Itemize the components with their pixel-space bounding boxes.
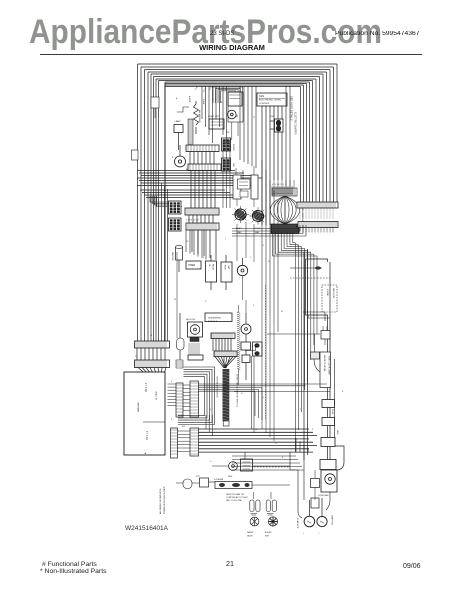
svg-text:DISPENSER: DISPENSER bbox=[208, 318, 221, 320]
svg-text:ELECTRONIC CNTRL: ELECTRONIC CNTRL bbox=[259, 100, 282, 102]
svg-text:ICE: ICE bbox=[270, 116, 274, 118]
svg-text:START RLY: START RLY bbox=[331, 515, 334, 526]
svg-text:H: H bbox=[262, 397, 264, 399]
svg-text:L1: L1 bbox=[262, 245, 265, 247]
svg-text:TWISTED PR SEE NOTE: TWISTED PR SEE NOTE bbox=[216, 376, 218, 398]
svg-text:CONTROL: CONTROL bbox=[259, 103, 270, 105]
svg-text:J2 CONN: J2 CONN bbox=[156, 391, 158, 400]
svg-text:LT: LT bbox=[253, 117, 256, 119]
svg-text:S-THERM: S-THERM bbox=[214, 479, 223, 481]
svg-text:SENSOR: SENSOR bbox=[171, 252, 173, 261]
svg-text:ALL WIRING SHOWN WITH: ALL WIRING SHOWN WITH bbox=[159, 488, 162, 514]
svg-text:1 2 3 4 5 6 7 8: 1 2 3 4 5 6 7 8 bbox=[186, 220, 200, 222]
svg-text:MAIN BRD: MAIN BRD bbox=[137, 402, 140, 412]
svg-text:DO NOT SPLICE WIRES AT THIS LO: DO NOT SPLICE WIRES AT THIS LOC bbox=[236, 374, 239, 408]
svg-text:L: L bbox=[172, 156, 174, 159]
svg-text:CAP: CAP bbox=[227, 265, 230, 270]
svg-text:VALVE: VALVE bbox=[247, 535, 253, 538]
svg-text:PTC: PTC bbox=[196, 476, 201, 478]
svg-text:D: D bbox=[210, 461, 212, 463]
svg-text:COMP MTR: COMP MTR bbox=[296, 518, 298, 529]
svg-text:K: K bbox=[253, 305, 255, 307]
svg-text:DOOR: DOOR bbox=[232, 144, 234, 151]
svg-text:RUN: RUN bbox=[224, 265, 226, 270]
svg-text:LINE: LINE bbox=[336, 430, 338, 435]
svg-text:4 WIRE: 4 WIRE bbox=[326, 289, 328, 297]
svg-text:DEF: DEF bbox=[228, 476, 233, 478]
svg-text:DEF. CYCLE TIME: DEF. CYCLE TIME bbox=[226, 500, 243, 502]
svg-text:A: A bbox=[176, 97, 178, 100]
svg-text:ELECTRIC DAMPER: ELECTRIC DAMPER bbox=[294, 112, 297, 135]
svg-text:M: M bbox=[281, 311, 283, 313]
svg-text:LIGHT SW: LIGHT SW bbox=[208, 116, 219, 118]
svg-text:J2: J2 bbox=[135, 356, 138, 358]
svg-text:#: # bbox=[303, 533, 305, 535]
svg-text:SW: SW bbox=[226, 132, 229, 134]
svg-text:AUGER: AUGER bbox=[265, 531, 272, 534]
svg-text:L2: L2 bbox=[275, 443, 278, 445]
svg-text:P3: P3 bbox=[186, 241, 189, 243]
svg-text:COMP RELAY CYCLE AT: COMP RELAY CYCLE AT bbox=[226, 496, 249, 499]
svg-text:9: 9 bbox=[171, 419, 173, 421]
svg-text:A-05: A-05 bbox=[194, 85, 199, 91]
svg-text:C: C bbox=[250, 257, 252, 259]
svg-text:1: 1 bbox=[171, 381, 173, 383]
svg-text:FUSE: FUSE bbox=[331, 409, 333, 415]
svg-text:MODULE: MODULE bbox=[208, 321, 218, 323]
svg-text:DEFROST HEAT ON: DEFROST HEAT ON bbox=[226, 493, 244, 496]
svg-text:WATER: WATER bbox=[247, 531, 254, 534]
svg-text:A-MTR: A-MTR bbox=[188, 96, 191, 103]
svg-text:SEE NOTE DETAIL: SEE NOTE DETAIL bbox=[323, 355, 326, 372]
svg-text:3: 3 bbox=[312, 429, 314, 431]
svg-text:4 3 2 1 8 7 6 5: 4 3 2 1 8 7 6 5 bbox=[272, 184, 284, 186]
svg-text:WIRE COLOR CHART: WIRE COLOR CHART bbox=[328, 356, 331, 376]
svg-text:S1N: S1N bbox=[259, 94, 264, 98]
svg-text:P6 2 1 3: P6 2 1 3 bbox=[145, 382, 148, 392]
svg-text:R: R bbox=[268, 261, 270, 263]
svg-text:#: # bbox=[318, 533, 320, 535]
svg-text:J1: J1 bbox=[150, 335, 153, 337]
svg-text:RELAY: RELAY bbox=[212, 264, 215, 271]
svg-text:F: F bbox=[342, 391, 344, 393]
svg-text:POWER OFF DOOR CLOSED: POWER OFF DOOR CLOSED bbox=[164, 486, 166, 514]
svg-text:MULLION: MULLION bbox=[186, 319, 195, 321]
svg-text:M: M bbox=[236, 115, 238, 118]
svg-text:W: W bbox=[174, 299, 176, 301]
svg-text:SW: SW bbox=[232, 163, 234, 167]
svg-text:P2 2 1 3: P2 2 1 3 bbox=[146, 430, 149, 440]
svg-text:T: T bbox=[225, 239, 227, 241]
svg-text:S: S bbox=[203, 257, 205, 259]
svg-text:SEE NOTE: SEE NOTE bbox=[332, 288, 334, 299]
svg-text:V: V bbox=[205, 301, 207, 303]
svg-text:COND FAN: COND FAN bbox=[318, 494, 329, 497]
svg-text:L-AMP: L-AMP bbox=[174, 120, 181, 123]
svg-text:MTR: MTR bbox=[265, 536, 270, 538]
svg-text:G: G bbox=[241, 393, 243, 395]
svg-text:P4: P4 bbox=[182, 426, 185, 428]
svg-text:ALL AROUND: ALL AROUND bbox=[198, 110, 201, 123]
svg-text:E: E bbox=[282, 457, 284, 459]
svg-text:TIMER: TIMER bbox=[188, 265, 195, 267]
